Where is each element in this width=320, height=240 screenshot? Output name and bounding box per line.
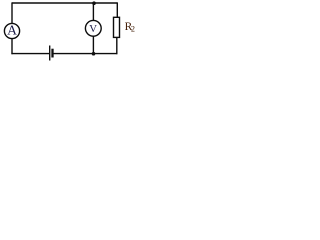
svg-text:A: A [7, 23, 17, 38]
svg-text:V: V [89, 23, 97, 35]
svg-text:2: 2 [131, 25, 135, 34]
